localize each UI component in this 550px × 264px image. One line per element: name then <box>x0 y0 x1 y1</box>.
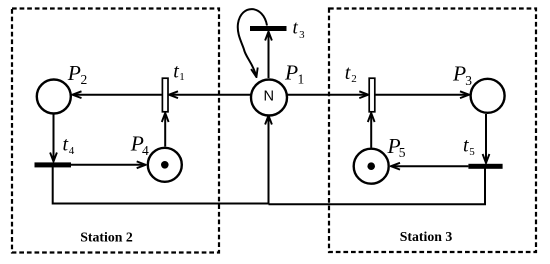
token in P5 <box>367 162 375 170</box>
svg-text:1: 1 <box>179 71 185 83</box>
svg-text:t: t <box>63 134 69 156</box>
station 3 dashed box <box>329 9 536 253</box>
svg-text:P: P <box>67 61 81 85</box>
token in P4 <box>161 161 169 169</box>
wire P1 up to t3 (arrow up into t3) <box>268 32 270 78</box>
svg-text:3: 3 <box>465 73 472 88</box>
svg-text:4: 4 <box>69 145 75 157</box>
svg-text:2: 2 <box>351 73 357 85</box>
transition t5 (filled bar) <box>468 164 502 169</box>
wire P4 up to t1 (arrow up into t1) <box>164 114 166 147</box>
wire junction up to P1 (arrow up into P1) <box>268 116 270 204</box>
place P5 <box>354 149 389 184</box>
wire P1 to t1 (arrow left into t1) <box>170 94 251 96</box>
wire P3 down to t5 (arrow down into t5) <box>485 114 487 163</box>
wire t5 to P5 (arrow left into P5) <box>392 165 469 167</box>
svg-text:Station 2: Station 2 <box>80 229 133 244</box>
place P1 <box>251 80 287 116</box>
svg-text:1: 1 <box>298 72 305 87</box>
svg-text:2: 2 <box>81 72 88 87</box>
wire t1 to P2 (arrow left into P2) <box>73 94 162 96</box>
svg-text:5: 5 <box>469 146 475 158</box>
wire P5 up to t2 (arrow up into t2) <box>370 114 372 148</box>
svg-text:t: t <box>345 62 351 84</box>
transition t3 (filled bar) <box>250 26 287 31</box>
place P3 <box>471 79 505 113</box>
svg-text:P: P <box>284 61 298 85</box>
transition t1 (empty bar) <box>162 78 168 112</box>
svg-text:N: N <box>264 89 275 105</box>
svg-text:P: P <box>452 62 466 86</box>
place P4 <box>148 148 182 182</box>
svg-text:Station 3: Station 3 <box>400 229 453 244</box>
wire P2 down to t4 (arrow down into t4) <box>53 115 55 162</box>
svg-text:4: 4 <box>142 143 149 158</box>
wire t4 to P4 (arrow right into P4) <box>71 164 145 166</box>
svg-text:5: 5 <box>399 145 406 160</box>
svg-text:t: t <box>463 135 469 157</box>
station 2 dashed box <box>12 9 219 253</box>
transition t2 (empty bar) <box>369 78 375 112</box>
wire t5 down and left to center junction <box>269 169 486 205</box>
wire t4 down and right to center junction <box>53 167 269 204</box>
wire t2 to P3 (arrow right into P3) <box>375 94 469 96</box>
arc t3 to P1 (loop, arrow down into P1) <box>238 9 267 76</box>
transition t4 (filled bar) <box>35 162 72 167</box>
place P2 <box>37 80 71 114</box>
svg-text:3: 3 <box>299 29 305 41</box>
svg-text:t: t <box>293 17 299 38</box>
wire P1 to t2 (arrow right into t2) <box>287 94 368 96</box>
